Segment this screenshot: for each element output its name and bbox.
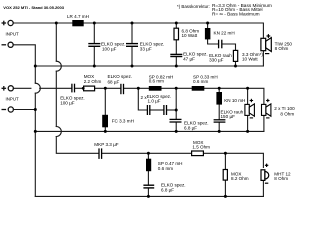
capacitor ELKO spez. 1.0uF a: [147, 105, 149, 115]
svg-text:100 µF: 100 µF: [102, 46, 117, 51]
wire hop at 56,66: [56, 61, 61, 71]
svg-text:KN 10 mH: KN 10 mH: [224, 98, 245, 103]
inductor SP 0.47 mH: [146, 159, 151, 172]
node dots top rail: [55, 22, 209, 25]
wire 1uF branch: [138, 88, 146, 110]
capacitor C 100uF woofer drop: [93, 23, 95, 43]
wire tweeter feed mid: [55, 71, 57, 126]
speaker MHT 12 tweeter: [261, 170, 269, 181]
capacitor ELKO spez. 100uF (mid): [72, 84, 75, 93]
wire hop at 56,131: [56, 127, 61, 137]
svg-text:330 µF: 330 µF: [209, 58, 224, 63]
svg-text:8.2 Ohm: 8.2 Ohm: [231, 176, 249, 181]
speaker TI 100 no.2: [262, 104, 271, 116]
wire KN10 shunt: [218, 88, 220, 92]
svg-text:100 µF: 100 µF: [60, 100, 75, 105]
node dot 1uF branch: [175, 109, 178, 112]
wire woofer bottom rail: [35, 65, 263, 67]
wire mid rail SP033 to spk2 corner: [204, 88, 264, 104]
capacitor ELKO spez. 33uF: [126, 44, 138, 47]
terminal input1 minus: [2, 42, 14, 47]
inductor FC 3.3 mH: [102, 115, 108, 128]
inductor SP 0.33 mH: [192, 86, 205, 91]
svg-text:2 x TI 100: 2 x TI 100: [274, 106, 295, 111]
wire minus vertical continued: [34, 93, 36, 196]
svg-text:68 µF: 68 µF: [108, 79, 120, 84]
svg-text:1.0 µF: 1.0 µF: [148, 98, 161, 103]
resistor MOX 8.2 Ohm: [223, 170, 227, 181]
svg-text:VOX 252 MTI - Stand 30.05.2003: VOX 252 MTI - Stand 30.05.2003: [3, 5, 64, 10]
inductor SP 0.82 mH: [149, 86, 162, 91]
svg-text:10 Watt: 10 Watt: [182, 33, 198, 38]
wire MOX82 shunt: [224, 153, 226, 169]
svg-text:INPUT: INPUT: [6, 97, 19, 102]
svg-text:6.8 µF: 6.8 µF: [184, 126, 197, 131]
capacitor ELKO rauh 150uF: [214, 120, 226, 122]
capacitor ELKO spez. 47uF: [170, 54, 182, 56]
svg-text:MKP 3.3 µF: MKP 3.3 µF: [94, 142, 118, 147]
wire mid rail SP082 to SP033: [162, 87, 192, 89]
wire TIW bottom: [262, 51, 264, 66]
inductor KN 22 mH: [205, 28, 211, 39]
wire SP047 shunt: [147, 153, 149, 158]
svg-text:0.6 mm: 0.6 mm: [149, 79, 164, 84]
capacitor ELKO spez. 6.8uF (tweeter shunt): [143, 185, 154, 188]
node dots mid bottom rail: [104, 130, 249, 133]
wire mid rail 68uF to SP082: [124, 87, 149, 89]
wire spk2 bottom: [263, 115, 265, 131]
capacitor MKP 3.3uF: [99, 148, 102, 159]
capacitor ELKO spez. 68uF: [121, 84, 124, 94]
wire top rail left (input1+ to LR): [13, 22, 72, 24]
capacitor C 33uF woofer drop: [131, 23, 133, 43]
wire mid rail resistor to 68uF: [95, 87, 121, 89]
svg-text:8 Ohm: 8 Ohm: [274, 176, 288, 181]
svg-text:150 µF: 150 µF: [221, 114, 236, 119]
wire tweeter rail after MKP: [102, 152, 192, 154]
capacitor ELKO spez. 100uF (woofer): [88, 44, 100, 47]
resistor R 3.3 Ohm 10 Watt: [233, 50, 237, 61]
wire mid rail cap to resistor: [75, 87, 84, 89]
capacitor ELKO rauh 330uF: [219, 40, 222, 49]
resistor R 6.8 Ohm drop: [175, 23, 177, 28]
resistor MOX 1.5 Ohm: [192, 151, 204, 156]
svg-text:1.5 Ohm: 1.5 Ohm: [192, 145, 210, 150]
speaker TIW 250: [261, 38, 271, 52]
terminal input2 plus: [2, 86, 14, 91]
inductor KN 10 mH: [216, 92, 222, 105]
terminal input2 minus: [2, 107, 14, 112]
resistor MOX 2.2 Ohm: [84, 86, 95, 91]
svg-text:KN 22 mH: KN 22 mH: [214, 31, 235, 36]
svg-text:INPUT: INPUT: [6, 32, 19, 37]
wire mid bottom rail: [35, 130, 264, 132]
node dots woofer bottom rail: [34, 65, 237, 68]
capacitor ELKO spez. 6.8uF (mid shunt): [170, 119, 182, 122]
svg-text:8 Ohm: 8 Ohm: [280, 111, 294, 116]
svg-text:2.2 Ohm: 2.2 Ohm: [84, 79, 102, 84]
wire input1- down-feed: [13, 45, 35, 83]
svg-text:33 µF: 33 µF: [140, 47, 152, 52]
wire mid input rail: [13, 87, 31, 89]
wire input2 minus lead: [13, 109, 35, 111]
resistor R 6.8 Ohm 10 Watt: [174, 28, 179, 40]
capacitor C 47uF lower wire: [175, 57, 177, 66]
wire tweeter bottom rail: [35, 195, 263, 197]
terminal input1 plus: [2, 20, 14, 25]
node dots tweeter bottom rail: [147, 195, 227, 198]
wire tweeter rail after MOX1.5: [203, 153, 263, 167]
svg-text:47 µF: 47 µF: [183, 56, 195, 61]
svg-text:ELKO spez.: ELKO spez.: [161, 182, 186, 187]
svg-text:0.6 mm: 0.6 mm: [158, 166, 173, 171]
wire 330uF to 3.3 Ohm: [222, 44, 235, 50]
svg-text:FC 3.3 mH: FC 3.3 mH: [112, 118, 134, 123]
svg-text:*) Basskorrektur:: *) Basskorrektur:: [177, 4, 210, 9]
node dots mid rail: [82, 87, 249, 90]
inductor LR 4.7 mH: [72, 20, 83, 26]
wire 6.8uF shunt: [175, 88, 177, 118]
node dots tweeter rail: [147, 152, 227, 155]
wire FC shunt: [104, 88, 106, 115]
wire MHT bottom: [262, 180, 264, 196]
speaker TI 100 no.1: [245, 104, 255, 116]
inductor KN 22mH drop + elbow: [207, 23, 209, 28]
wire tweeter feed vertical top: [55, 23, 57, 61]
wire top rail right (LR to TIW corner): [84, 23, 264, 37]
svg-text:6.8 µF: 6.8 µF: [161, 188, 174, 193]
wire tweeter feed bottom: [56, 137, 98, 154]
svg-text:8 Ohm: 8 Ohm: [275, 46, 289, 51]
capacitor ELKO spez. 1.0uF b: [164, 105, 167, 115]
wire spk1 drop: [247, 88, 249, 104]
wire hop at 35,88: [35, 83, 40, 93]
svg-text:R= ∞ - Bass Maximum: R= ∞ - Bass Maximum: [212, 12, 260, 18]
svg-text:0.6 mm: 0.6 mm: [193, 79, 208, 84]
svg-text:10 Watt: 10 Watt: [242, 56, 258, 61]
wire 3.3 Ohm to rail: [235, 61, 237, 66]
svg-text:LR 4.7 mH: LR 4.7 mH: [67, 14, 89, 19]
node dots input minus column: [34, 108, 37, 133]
